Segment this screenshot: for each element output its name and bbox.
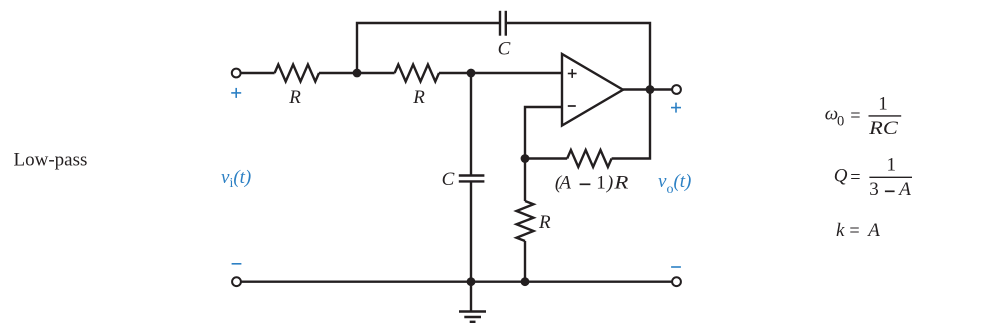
capacitor C1 (top feedback) bbox=[500, 11, 506, 36]
svg-text:vi(t): vi(t) bbox=[221, 167, 251, 191]
resistor R (vertical, to ground rail) bbox=[517, 201, 534, 241]
output terminal bottom bbox=[672, 277, 681, 286]
wire ground node to ground symbol bbox=[470, 282, 472, 312]
resistor R1 bbox=[275, 65, 319, 82]
svg-text:C: C bbox=[442, 169, 455, 190]
svg-text:R: R bbox=[538, 212, 551, 233]
output terminal top bbox=[672, 85, 681, 94]
wire input to R1 bbox=[241, 72, 275, 74]
output node junction dot bbox=[646, 85, 655, 94]
op-amp U1 bbox=[562, 54, 623, 126]
equation omega0 = 1/RC bbox=[825, 94, 902, 140]
output polarity minus sign (blue) bbox=[671, 266, 681, 268]
svg-text:1: 1 bbox=[878, 94, 888, 115]
svg-text:=: = bbox=[850, 167, 860, 188]
wire R bottom to ground rail bbox=[524, 241, 526, 282]
wire node C to op-amp inverting input bbox=[525, 107, 562, 159]
wire node A up to top feedback rail bbox=[357, 23, 500, 73]
input terminal bottom bbox=[232, 277, 241, 286]
svg-text:C: C bbox=[498, 39, 511, 60]
wire op-amp output to terminal bbox=[623, 88, 672, 90]
ground bbox=[459, 312, 486, 322]
wire (A-1)R to node C bbox=[525, 157, 567, 159]
capacitor C2 (shunt) bbox=[459, 176, 485, 182]
svg-text:=: = bbox=[850, 106, 860, 127]
wire node B to op-amp noninverting input bbox=[471, 72, 562, 74]
node C junction dot bbox=[521, 154, 530, 163]
equation Q = 1/(3-A) bbox=[834, 154, 912, 200]
svg-text:): ) bbox=[606, 172, 613, 193]
svg-text:vo(t): vo(t) bbox=[658, 171, 691, 197]
output polarity plus sign (blue) bbox=[671, 103, 681, 113]
input polarity minus sign (blue) bbox=[232, 263, 242, 265]
svg-text:Q: Q bbox=[834, 165, 848, 186]
resistor (A-1)R bbox=[567, 150, 611, 167]
node A junction dot bbox=[353, 69, 362, 78]
input polarity plus sign (blue) bbox=[231, 88, 241, 98]
wire C2 to ground rail bbox=[470, 181, 472, 281]
resistor R2 bbox=[395, 65, 439, 82]
equation k = A bbox=[836, 220, 880, 242]
label (A-1)R value bbox=[555, 172, 629, 193]
wire output node down to feedback resistor bbox=[612, 90, 650, 159]
svg-text:=: = bbox=[849, 221, 859, 242]
ground rail junction dot (R) bbox=[521, 277, 530, 286]
op-amp minus input sign bbox=[568, 105, 576, 107]
svg-text:A: A bbox=[897, 179, 911, 200]
bottom ground rail wire bbox=[241, 281, 672, 283]
svg-text:0: 0 bbox=[837, 113, 844, 129]
svg-text:1: 1 bbox=[886, 154, 896, 175]
svg-text:A: A bbox=[557, 172, 571, 193]
svg-text:Low-pass: Low-pass bbox=[14, 150, 88, 171]
svg-text:1: 1 bbox=[596, 172, 606, 193]
ground rail junction dot (C2) bbox=[467, 277, 476, 286]
svg-text:A: A bbox=[866, 220, 880, 241]
node B junction dot bbox=[467, 69, 476, 78]
wire node C to resistor R (vertical) bbox=[524, 159, 526, 202]
svg-text:R: R bbox=[613, 172, 629, 193]
wire R2 to node B bbox=[439, 72, 471, 74]
svg-text:RC: RC bbox=[868, 118, 898, 139]
wire R1 to node A bbox=[319, 72, 357, 74]
svg-text:k: k bbox=[836, 220, 845, 241]
op-amp plus input sign bbox=[568, 69, 577, 78]
svg-text:R: R bbox=[288, 87, 301, 108]
wire C1 to output node bbox=[506, 23, 650, 90]
wire node A to R2 bbox=[357, 72, 395, 74]
svg-text:R: R bbox=[412, 87, 425, 108]
input terminal top bbox=[232, 69, 241, 78]
wire node B down to capacitor C2 bbox=[470, 73, 472, 176]
svg-text:3: 3 bbox=[869, 179, 879, 200]
